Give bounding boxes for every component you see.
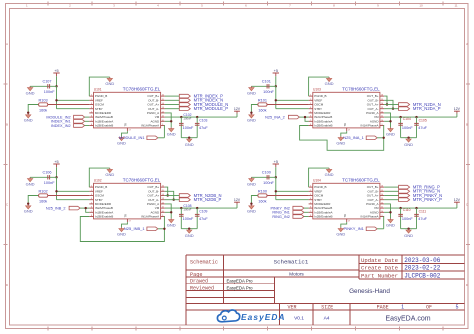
svg-text:11: 11 [162,207,164,209]
svg-text:GND: GND [117,231,126,236]
junction [399,207,401,209]
wire OUT to MTR_MODULE_N [165,104,180,106]
svg-text:12: 12 [162,202,164,204]
svg-text:5: 5 [310,111,311,113]
svg-text:17: 17 [129,130,131,132]
junction [55,85,57,87]
svg-text:2: 2 [91,190,92,192]
title values [227,257,459,322]
svg-text:Reviewed: Reviewed [190,286,214,292]
svg-text:4: 4 [310,198,311,200]
svg-text:IN1A/PhaseA: IN1A/PhaseA [360,124,378,128]
ground [390,218,392,219]
wire PGND_B to ground [309,77,330,96]
svg-text:10: 10 [162,120,164,122]
svg-text:5: 5 [91,202,92,204]
op-amp-driver IC U104 TC78H660FTG [309,183,385,222]
svg-text:GND: GND [185,233,194,238]
svg-text:1: 1 [310,186,311,188]
svg-text:U101: U101 [94,87,102,91]
svg-text:11: 11 [162,116,164,118]
svg-text:GND: GND [325,81,334,86]
ground [121,227,123,228]
svg-text:GND: GND [24,209,33,214]
wire PhaseA down [383,126,385,138]
svg-text:47uF: 47uF [418,217,427,221]
svg-text:+5: +5 [274,160,278,164]
junction [275,190,277,192]
svg-text:Motors: Motors [289,272,304,278]
junction [27,112,29,114]
wire PGND_B to ground [89,168,110,187]
svg-text:12: 12 [381,111,383,113]
svg-text:TC78H660FTG,EL: TC78H660FTG,EL [123,177,161,182]
capacitor C103 47uF [196,117,198,138]
junction [304,116,306,118]
svg-text:17: 17 [348,221,350,223]
svg-text:GND: GND [386,222,395,227]
net flag MTR_PINKY_P [399,198,410,202]
svg-text:7: 7 [310,211,311,213]
svg-text:GND: GND [247,90,256,95]
svg-text:N25_INB_1: N25_INB_1 [124,226,145,231]
svg-text:3: 3 [91,103,92,105]
net flag MTR_N2DB_N [179,194,190,198]
svg-text:5: 5 [310,202,311,204]
junction [170,120,172,122]
junction [55,190,57,192]
junction [389,211,391,213]
svg-text:5: 5 [91,111,92,113]
svg-text:A: A [466,42,468,46]
svg-text:12V: 12V [234,198,241,202]
svg-text:100nF: 100nF [402,217,413,221]
svg-text:EasyEDA.com: EasyEDA.com [385,315,430,322]
ground [27,114,29,115]
svg-text:+5: +5 [54,160,58,164]
svg-text:4: 4 [91,107,92,109]
svg-text:EasyEDA Pro: EasyEDA Pro [227,285,254,290]
ground [109,77,111,78]
resistor R101 160k [267,104,309,106]
svg-text:VER: VER [287,305,296,311]
svg-text:N25_INA_1: N25_INA_1 [343,135,364,140]
wire OUT to MTR_MODULE_P [165,108,180,110]
svg-text:11: 11 [381,116,383,118]
svg-text:A: A [6,42,8,46]
svg-text:11: 11 [454,3,457,7]
ground [250,114,252,115]
svg-text:12: 12 [381,202,383,204]
junction [275,99,277,101]
svg-text:16: 16 [162,95,164,97]
ground [328,168,330,169]
junction [415,116,417,118]
junction [250,203,252,205]
wire OUT_B+ bridge [165,187,168,195]
svg-text:15: 15 [162,190,164,192]
wire PhaseA down [163,217,165,229]
wire OUT to MTR_N2DB_P [165,199,180,201]
junction [196,207,198,209]
svg-text:B: B [6,122,8,126]
svg-text:TC78H660FTG,EL: TC78H660FTG,EL [342,86,380,91]
svg-text:6: 6 [91,207,92,209]
ground [109,168,111,169]
svg-text:R102: R102 [39,190,48,194]
svg-text:14: 14 [381,194,383,196]
junction [407,137,409,139]
svg-text:7: 7 [91,120,92,122]
svg-text:Update Date: Update Date [361,257,398,264]
op-amp-driver IC U102 TC78H660FTG [89,183,165,222]
op-amp-driver IC U103 TC78H660FTG [309,92,385,131]
svg-text:2023-02-22: 2023-02-22 [404,265,440,272]
resistor R103 160k [48,104,90,106]
resistor R102 160k [48,195,90,197]
svg-text:1: 1 [310,95,311,97]
svg-text:11: 11 [381,207,383,209]
svg-text:TR: TR [343,123,347,127]
wire PGND_A/AGND to ground [384,204,390,218]
junction [188,137,190,139]
svg-text:2: 2 [91,99,92,101]
svg-text:U102: U102 [94,178,102,182]
junction [167,194,169,196]
svg-text:100nF: 100nF [183,126,194,130]
svg-text:IN1A/PhaseA: IN1A/PhaseA [360,215,378,219]
svg-text:8: 8 [91,124,92,126]
svg-text:TR: TR [343,214,347,218]
wire EnableA tie [305,117,309,121]
svg-text:+5: +5 [274,69,278,73]
ground [29,177,31,178]
wire OUT_B- bridge [384,100,393,108]
svg-text:13: 13 [381,107,383,109]
svg-text:In2B/EnableB: In2B/EnableB [95,215,113,219]
net flag MTR_PINKY_N [399,194,410,198]
svg-text:GND: GND [336,231,345,236]
svg-text:17: 17 [129,221,131,223]
ground [250,205,252,206]
ground [27,205,29,206]
svg-text:JLCPCB-002: JLCPCB-002 [404,273,440,280]
svg-text:10: 10 [381,211,383,213]
junction [173,199,175,201]
svg-text:INDEX_IN2: INDEX_IN2 [51,124,71,128]
svg-text:C100: C100 [262,171,271,175]
svg-text:8: 8 [91,215,92,217]
junction [55,176,57,178]
svg-text:EasyEDA: EasyEDA [241,312,286,322]
capacitor C106 100nF [30,176,56,178]
wire PhaseA down [163,126,165,138]
wire thermal pad to ground [341,131,347,136]
net flag MTR_INDEX_P [179,94,190,98]
svg-text:47uF: 47uF [199,126,208,130]
wire PGND_B to ground [309,168,330,187]
svg-text:R101: R101 [258,99,267,103]
svg-text:C107: C107 [42,80,51,84]
capacitor C109 47uF [196,208,198,229]
title block table [186,255,465,325]
svg-text:1: 1 [91,186,92,188]
svg-text:U104: U104 [313,178,321,182]
ground [340,227,342,228]
wire OUT to MTR_N2DB_N [165,195,180,197]
capacitor C105 47uF [416,117,418,138]
svg-text:14: 14 [162,194,164,196]
wire OUT to MTR_N2DA_P [384,108,399,110]
svg-text:Page: Page [190,272,202,278]
svg-text:100nF: 100nF [183,217,194,221]
resistor R100 160k [267,195,309,197]
svg-text:GND: GND [26,181,35,186]
svg-text:Part Number: Part Number [361,273,398,280]
svg-text:100nF: 100nF [263,181,274,185]
svg-text:47uF: 47uF [418,126,427,130]
svg-text:17: 17 [348,130,350,132]
svg-text:GND: GND [26,90,35,95]
wire thermal pad to ground [122,222,128,227]
svg-text:100nF: 100nF [183,117,191,121]
wire +5 to VREF/STBY [275,177,277,199]
junction [170,211,172,213]
svg-text:2: 2 [310,190,311,192]
svg-text:13: 13 [162,107,164,109]
wire VM rail to 12V [165,207,237,209]
net flag MTR_N2DA_P [399,107,410,111]
junction [85,207,87,209]
svg-text:4: 4 [310,107,311,109]
svg-text:13: 13 [381,198,383,200]
net flag MTR_RING_P [399,185,410,189]
svg-text:6: 6 [310,116,311,118]
svg-text:GND: GND [336,140,345,145]
svg-text:12V: 12V [234,107,241,111]
svg-text:5: 5 [456,305,459,311]
junction [27,203,29,205]
ground [250,177,252,178]
wire thermal pad to ground [341,222,347,227]
svg-text:GND: GND [247,118,256,123]
svg-text:12V: 12V [454,107,461,111]
wire VM rail to 12V [165,116,237,118]
ground [170,127,172,128]
net flag MTR_MODULE_N [179,103,190,107]
junction [180,207,182,209]
wire OUT to MTR_RING_P [384,186,399,188]
svg-text:R100: R100 [258,190,267,194]
svg-text:IN1A/PhaseA: IN1A/PhaseA [141,215,159,219]
svg-text:SIZE: SIZE [321,305,333,311]
ground [188,229,190,230]
capacitor C107 100nF [30,85,56,87]
svg-text:14: 14 [162,103,164,105]
svg-text:TR: TR [124,214,128,218]
svg-text:C106: C106 [42,171,51,175]
svg-text:PINKY_IN1: PINKY_IN1 [343,226,364,231]
ground [328,77,330,78]
svg-text:13: 13 [162,198,164,200]
svg-text:7: 7 [310,120,311,122]
svg-text:B: B [466,122,468,126]
svg-text:9: 9 [381,215,382,217]
svg-text:OF: OF [426,305,432,311]
svg-text:7: 7 [91,211,92,213]
wire OUT to MTR_INDEX_N [165,99,180,101]
svg-text:Drawed: Drawed [190,279,208,285]
svg-text:Create Date: Create Date [361,265,398,272]
svg-text:3: 3 [310,103,311,105]
svg-text:100nF: 100nF [402,126,413,130]
svg-text:GND: GND [247,181,256,186]
junction [196,116,198,118]
capacitor C108 100nF [180,208,182,229]
svg-text:TC78H660FTG,EL: TC78H660FTG,EL [342,177,380,182]
svg-text:Schematic1: Schematic1 [274,258,309,265]
ground [121,136,123,137]
svg-text:16: 16 [381,95,383,97]
svg-text:MODULE_IN1: MODULE_IN1 [119,135,145,140]
svg-text:EasyEDA Pro: EasyEDA Pro [227,278,254,283]
svg-text:100nF: 100nF [44,181,55,185]
svg-text:MTR_MODULE_P: MTR_MODULE_P [194,106,229,111]
ground [188,138,190,139]
capacitor C101 100nF [251,85,275,87]
svg-text:14: 14 [381,103,383,105]
svg-text:16: 16 [162,186,164,188]
svg-text:In2B/EnableB: In2B/EnableB [314,215,332,219]
wire OUT to MTR_PINKY_P [384,199,399,201]
wire OUT_B- bridge [165,191,174,199]
net flag MTR_INDEX_N [179,99,190,103]
junction [188,228,190,230]
svg-text:160k: 160k [258,108,266,112]
svg-text:GND: GND [105,172,114,177]
svg-text:GND: GND [105,81,114,86]
svg-text:GND: GND [247,209,256,214]
wire PGND_A/AGND to ground [165,113,171,127]
ground [408,138,410,139]
wire thermal pad to ground [122,131,128,136]
wire +5 to VREF/STBY [56,177,58,199]
svg-text:3: 3 [91,194,92,196]
svg-text:160k: 160k [39,108,47,112]
capacitor C111 47uF [416,208,418,229]
junction [399,116,401,118]
svg-text:GND: GND [24,118,33,123]
svg-text:1: 1 [401,305,404,311]
svg-text:2023-03-06: 2023-03-06 [404,257,440,264]
wire cap commons [401,137,417,139]
wire cap commons [401,228,417,230]
op-amp-driver IC U101 TC78H660FTG [89,92,165,131]
EasyEDA logo [217,310,285,322]
svg-text:TR: TR [124,123,128,127]
svg-text:MTR_PINKY_P: MTR_PINKY_P [413,197,442,202]
svg-text:8: 8 [310,215,311,217]
svg-text:15: 15 [381,190,383,192]
ground [29,86,31,87]
svg-text:100nF: 100nF [183,208,191,212]
wire PhaseA down [383,217,385,229]
svg-text:GND: GND [404,233,413,238]
net flag MTR_MODULE_P [179,107,190,111]
net flag MTR_N2DA_N [399,103,410,107]
svg-text:V0.1: V0.1 [294,316,304,322]
wire OUT to MTR_PINKY_N [384,195,399,197]
svg-text:9: 9 [162,215,163,217]
ground [340,136,342,137]
svg-text:100nF: 100nF [44,90,55,94]
svg-text:GND: GND [386,131,395,136]
junction [55,99,57,101]
svg-text:C110: C110 [403,208,411,212]
svg-text:RING_IN2: RING_IN2 [272,215,290,219]
net flag MTR_N2DB_P [179,198,190,202]
svg-text:10: 10 [381,120,383,122]
wire EnableB loop [80,217,164,242]
svg-text:GND: GND [167,222,176,227]
svg-text:160k: 160k [258,199,266,203]
svg-text:16: 16 [381,186,383,188]
junction [389,120,391,122]
svg-text:10: 10 [419,3,423,7]
svg-text:10: 10 [162,211,164,213]
svg-text:A4: A4 [324,316,330,322]
svg-text:9: 9 [381,124,382,126]
junction [163,228,165,230]
junction [275,176,277,178]
ground [390,127,392,128]
svg-text:47uF: 47uF [199,217,208,221]
wire PGND_A/AGND to ground [165,204,171,218]
svg-text:Schematic: Schematic [190,259,218,265]
junction [392,108,394,110]
svg-text:In2B/EnableB: In2B/EnableB [314,124,332,128]
wire +5 to VREF/STBY [56,86,58,108]
svg-text:12V: 12V [454,198,461,202]
junction [407,228,409,230]
svg-text:TC78H660FTG,EL: TC78H660FTG,EL [123,86,161,91]
svg-text:3: 3 [310,194,311,196]
svg-text:6: 6 [310,207,311,209]
svg-text:MTR_N2DB_P: MTR_N2DB_P [194,197,222,202]
wire EnableA tie [86,208,90,212]
junction [415,207,417,209]
wire OUT_B+ bridge [384,96,387,104]
junction [275,85,277,87]
svg-text:100nF: 100nF [263,90,274,94]
capacitor C110 100nF [400,208,402,229]
wire VM rail to 12V [384,207,457,209]
svg-text:GND: GND [117,140,126,145]
svg-text:2: 2 [310,99,311,101]
junction [180,116,182,118]
junction [386,103,388,105]
svg-text:9: 9 [162,124,163,126]
capacitor C100 100nF [251,176,275,178]
svg-text:15: 15 [162,99,164,101]
svg-text:12: 12 [162,111,164,113]
wire EnableB loop [300,126,384,151]
capacitor C102 100nF [180,117,182,138]
wire OUT to MTR_RING_N [384,190,399,192]
net flag MTR_RING_N [399,190,410,194]
svg-text:+5: +5 [54,69,58,73]
wire OUT to MTR_N2DA_N [384,104,399,106]
